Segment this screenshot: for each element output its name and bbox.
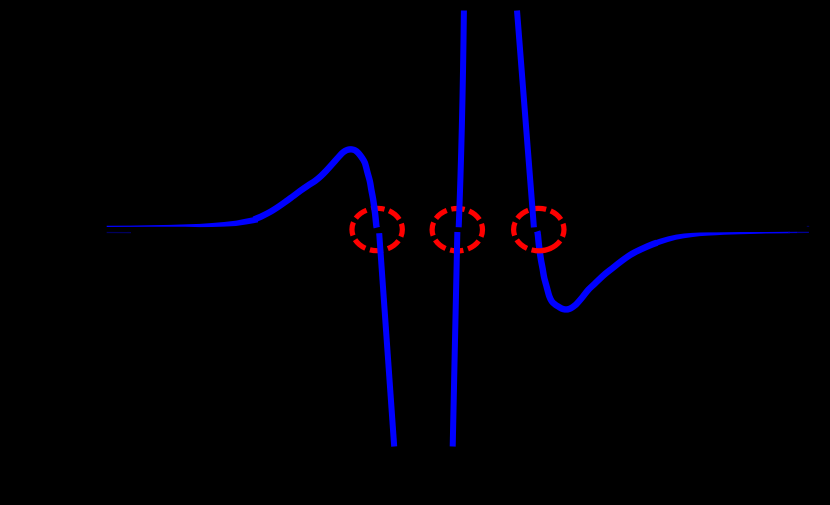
blue curve: middle branch upper bbox=[459, 11, 464, 228]
blue curve: middle branch lower bbox=[453, 232, 458, 447]
blue curve: right branch lower with dip bbox=[537, 231, 657, 309]
red dashed circle c1 bbox=[352, 208, 402, 250]
faint navy dot right end bbox=[807, 226, 809, 227]
blue curve: right tail (tapered band) bbox=[652, 232, 790, 248]
blue curve: left branch plunge below hole bbox=[379, 233, 394, 446]
faint navy asymptote stub left bbox=[107, 232, 131, 234]
red dashed circle c2 bbox=[432, 209, 482, 251]
blue curve: right branch upper bbox=[517, 11, 534, 228]
right tail dim end bbox=[788, 231, 797, 233]
red dash over blue at c3 bottom bbox=[535, 248, 551, 251]
blue curve: left branch with peak bbox=[254, 149, 377, 227]
blue curve: left tail (tapered band) bbox=[107, 216, 258, 227]
red dashed circle c3 bbox=[514, 208, 564, 250]
